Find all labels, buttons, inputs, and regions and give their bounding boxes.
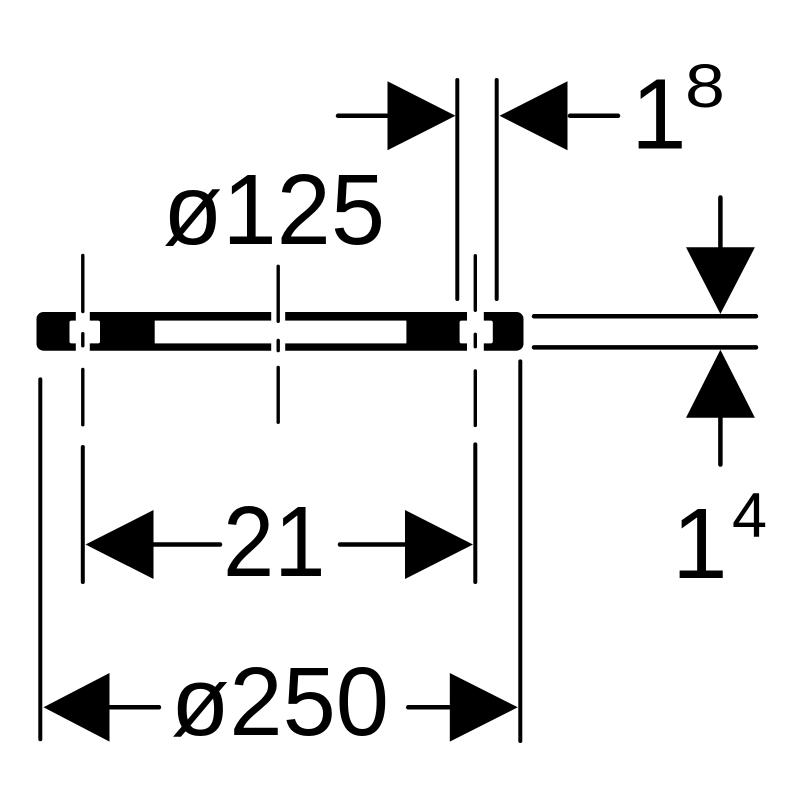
- svg-text:4: 4: [732, 481, 767, 551]
- extension line 1.8 right: [495, 80, 499, 299]
- dimension 21 right arrow: [340, 510, 473, 579]
- thickness line bottom: [534, 345, 756, 350]
- dimension 1.4 down arrow: [686, 198, 755, 315]
- extension line ø250 right: [518, 361, 522, 741]
- svg-text:1: 1: [672, 488, 728, 600]
- svg-text:21: 21: [223, 486, 325, 598]
- dimension 1.8 right arrow: [500, 81, 619, 150]
- label 1.8: [631, 52, 725, 171]
- thickness line top: [534, 314, 756, 319]
- centerline left notch: [81, 255, 84, 424]
- label 1.4: [672, 481, 767, 600]
- dimension ø250 right arrow: [408, 673, 518, 742]
- svg-text:ø125: ø125: [163, 154, 385, 266]
- extension line 21 right: [473, 444, 477, 582]
- extension line ø250 left: [38, 379, 42, 739]
- extension line 21 left: [81, 447, 85, 582]
- svg-text:ø250: ø250: [171, 647, 389, 756]
- dimension 1.4 up arrow: [686, 350, 755, 465]
- part cross-section body: [37, 311, 524, 352]
- dimension 1.8 left arrow: [338, 81, 456, 150]
- dimension ø250 left arrow: [44, 673, 160, 742]
- centerline middle: [277, 266, 280, 422]
- svg-text:1: 1: [631, 59, 687, 171]
- dimension 21 left arrow: [86, 510, 221, 579]
- svg-text:8: 8: [685, 52, 725, 120]
- extension line 1.8 left: [455, 80, 459, 299]
- centerline right notch: [474, 256, 477, 426]
